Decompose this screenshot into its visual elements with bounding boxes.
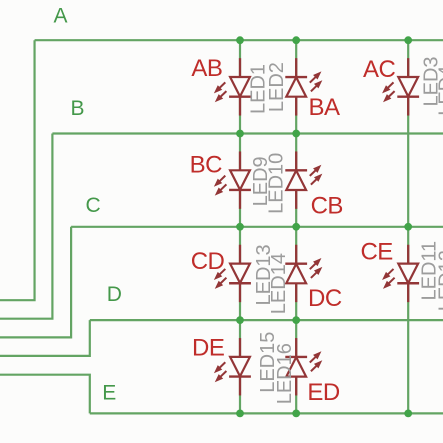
wire bus A horizontal	[35, 39, 443, 41]
wire bus C horizontal	[71, 226, 443, 228]
LED LED2 (BA)	[285, 58, 321, 115]
LED LED10 (CB)	[285, 151, 321, 208]
svg-text:CE: CE	[360, 238, 392, 265]
wire net E left stub and riser	[0, 375, 90, 414]
wire net C left stub and riser	[0, 227, 71, 338]
svg-text:B: B	[71, 97, 85, 120]
junction dots column 1	[236, 36, 244, 417]
svg-text:AC: AC	[363, 56, 396, 83]
svg-text:CB: CB	[311, 193, 343, 220]
wire net B left stub and riser	[0, 134, 52, 319]
svg-text:LED2: LED2	[266, 62, 288, 112]
svg-text:DC: DC	[308, 285, 342, 312]
LED LED14 (DC)	[285, 245, 321, 302]
LED LED15 (DE)	[215, 338, 251, 395]
wire column 3 vertical	[407, 40, 409, 413]
wire bus E horizontal	[90, 412, 443, 414]
wire net D left stub and riser	[0, 320, 90, 356]
svg-text:AB: AB	[191, 55, 222, 82]
wire column 1 vertical	[239, 40, 241, 413]
svg-text:A: A	[54, 5, 68, 28]
LED LED13 (CD)	[215, 245, 251, 302]
wire bus B horizontal	[52, 132, 443, 134]
svg-text:E: E	[102, 382, 116, 405]
svg-text:LED4: LED4	[436, 66, 443, 116]
junction dots column 3	[404, 36, 412, 417]
svg-text:CD: CD	[191, 248, 225, 275]
svg-text:BC: BC	[190, 152, 223, 179]
junction dots column 2	[292, 36, 300, 417]
LED LED1 (AB)	[215, 58, 251, 115]
svg-text:LED12: LED12	[435, 250, 443, 311]
svg-text:LED16: LED16	[274, 343, 296, 404]
svg-text:DE: DE	[192, 335, 224, 362]
svg-text:LED14: LED14	[268, 253, 290, 314]
LED LED9 (BC)	[215, 151, 251, 208]
svg-text:C: C	[86, 194, 101, 217]
svg-text:LED10: LED10	[265, 153, 287, 214]
svg-text:BA: BA	[309, 94, 341, 121]
wire bus D horizontal	[90, 319, 443, 321]
LED LED3 (AC)	[383, 58, 419, 115]
svg-text:ED: ED	[307, 379, 340, 406]
wire column 2 vertical	[295, 40, 297, 413]
LED LED16 (ED)	[285, 338, 321, 395]
wire net A left stub and riser	[0, 40, 35, 300]
svg-text:D: D	[107, 283, 122, 306]
LED LED11 (CE)	[383, 245, 419, 302]
